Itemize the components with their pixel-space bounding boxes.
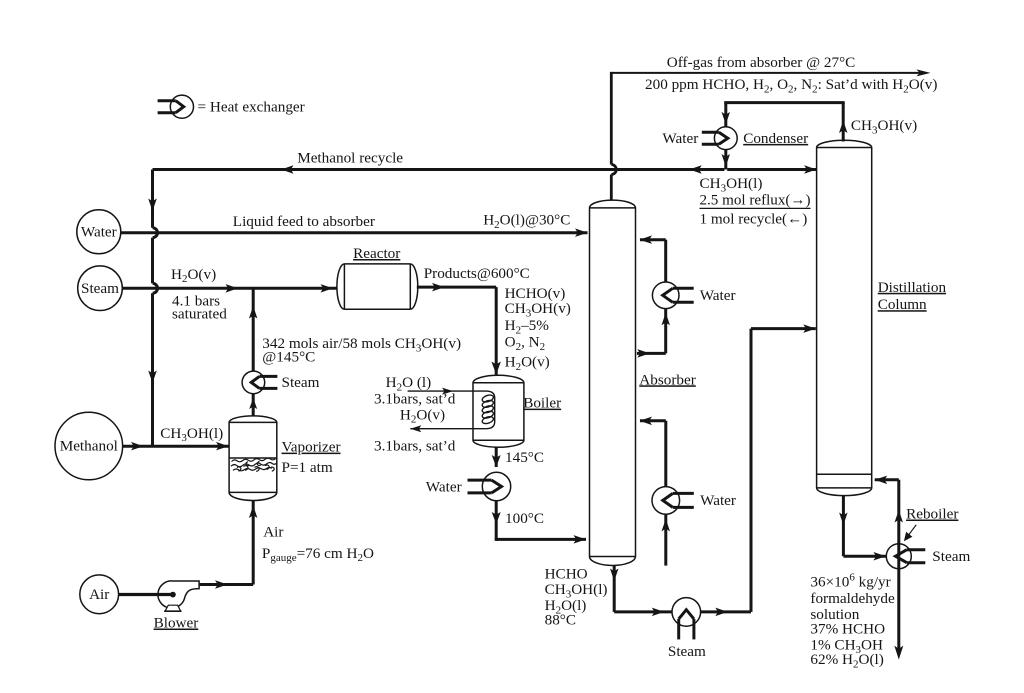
svg-text:Liquid feed to absorber: Liquid feed to absorber — [233, 213, 375, 230]
svg-text:Reactor: Reactor — [353, 245, 400, 262]
heat exchanger boiler-outlet cooler — [468, 472, 511, 500]
wire absorber intercooler loop 1 — [637, 235, 670, 357]
legend heat-exchanger symbol — [158, 95, 194, 118]
svg-text:37% HCHO: 37% HCHO — [810, 621, 885, 638]
absorber column — [590, 200, 636, 565]
reactor U-1 — [337, 264, 418, 309]
svg-text:Methanol: Methanol — [60, 438, 118, 455]
source circle Air — [80, 575, 119, 614]
vaporizer vessel — [229, 416, 277, 501]
svg-text:Air: Air — [263, 524, 283, 541]
svg-text:Steam: Steam — [668, 643, 706, 660]
wire methanol recycle / reflux header — [148, 165, 816, 446]
hop absorber-overhead over recycle line — [611, 165, 616, 175]
svg-text:Methanol recycle: Methanol recycle — [297, 150, 403, 167]
reboiler annotation arrow — [904, 525, 916, 542]
source circle Methanol — [55, 412, 123, 480]
wire column overhead to condenser — [722, 103, 848, 142]
svg-text:H2​O(v): H2​O(v) — [400, 406, 445, 425]
wire condensate to reflux header — [722, 150, 731, 170]
fraction bar reflux/recycle — [700, 207, 811, 209]
boiler coil — [408, 391, 495, 429]
svg-text:Products@600°C: Products@600°C — [424, 265, 530, 282]
svg-text:Blower: Blower — [154, 615, 199, 632]
svg-text:1 mol recycle(←): 1 mol recycle(←) — [700, 210, 808, 227]
svg-text:Water: Water — [700, 287, 736, 304]
wire reboiler vapor return — [875, 476, 903, 557]
wire column bottoms to reboiler — [839, 496, 886, 561]
heat exchanger absorber intercooler 2 — [652, 487, 694, 515]
svg-text:saturated: saturated — [172, 305, 227, 322]
svg-text:CH3​OH(l): CH3​OH(l) — [160, 425, 223, 444]
svg-text:Off-gas from absorber @ 27°C: Off-gas from absorber @ 27°C — [667, 54, 856, 71]
svg-text:CH3​OH(v): CH3​OH(v) — [851, 117, 917, 136]
wire boiler steam side — [410, 388, 453, 433]
wire formaldehyde product — [894, 556, 903, 659]
svg-text:P=1 atm: P=1 atm — [282, 459, 333, 476]
wire boiler outlet to cooler — [492, 447, 586, 543]
svg-text:O2​, N2​: O2​, N2​ — [505, 333, 546, 352]
svg-text:= Heat exchanger: = Heat exchanger — [198, 98, 305, 115]
svg-text:Column: Column — [878, 296, 927, 313]
svg-text:Condenser: Condenser — [743, 130, 808, 147]
svg-text:2.5 mol reflux(→): 2.5 mol reflux(→) — [700, 192, 811, 209]
vaporizer liquid level — [229, 458, 277, 471]
wire air from blower to vaporizer — [200, 501, 258, 589]
svg-text:formaldehyde: formaldehyde — [810, 590, 895, 607]
wire air to blower — [119, 592, 176, 598]
svg-text:H2​O(v): H2​O(v) — [171, 266, 216, 285]
wire water feed to absorber — [121, 228, 588, 237]
heat exchanger steam heater — [672, 598, 701, 640]
svg-text:145°C: 145°C — [505, 449, 544, 466]
svg-text:Boiler: Boiler — [523, 395, 561, 412]
wire heated bottoms to distillation feed — [701, 324, 816, 616]
svg-text:100°C: 100°C — [505, 510, 544, 527]
svg-text:H2​O(v): H2​O(v) — [505, 354, 550, 373]
svg-text:Water: Water — [81, 223, 117, 240]
blower B-1 — [158, 581, 199, 611]
svg-text:Air: Air — [89, 586, 109, 603]
heat exchanger on vaporizer overhead — [242, 371, 277, 394]
wire vaporizer overhead to steam line — [249, 288, 258, 416]
wire steam feed to reactor — [122, 284, 337, 293]
svg-text:Distillation: Distillation — [878, 279, 947, 296]
svg-text:Water: Water — [700, 492, 736, 509]
source circle Steam — [78, 266, 123, 311]
wire off-gas from absorber — [611, 69, 930, 203]
heat exchanger absorber intercooler 1 — [652, 282, 693, 309]
wire absorber bottoms to heater — [610, 566, 672, 617]
source circle Water — [77, 210, 121, 254]
boiler vessel — [473, 375, 524, 447]
svg-text:Vaporizer: Vaporizer — [282, 439, 341, 456]
svg-text:Water: Water — [426, 478, 462, 495]
svg-text:3.1bars, sat’d: 3.1bars, sat’d — [374, 438, 456, 455]
svg-text:Steam: Steam — [282, 374, 320, 391]
wire methanol feed to vaporizer — [123, 442, 229, 451]
svg-text:88°C: 88°C — [545, 612, 576, 629]
svg-text:62% H2​O(l): 62% H2​O(l) — [810, 651, 883, 670]
reboiler heat exchanger — [886, 544, 925, 569]
svg-text:Steam: Steam — [81, 280, 119, 297]
svg-text:Steam: Steam — [932, 548, 970, 565]
distillation column — [817, 140, 872, 495]
hop recycle-vertical over water line — [153, 228, 158, 238]
condenser heat exchanger — [702, 127, 737, 150]
wire reactor products to boiler — [417, 283, 501, 375]
svg-text:@145°C: @145°C — [262, 348, 315, 365]
hop recycle-vertical over steam line — [153, 283, 158, 293]
wire absorber intercooler loop 2 — [640, 417, 671, 566]
svg-text:3.1bars, sat’d: 3.1bars, sat’d — [374, 391, 456, 408]
svg-text:Absorber: Absorber — [639, 371, 696, 388]
svg-text:Water: Water — [662, 130, 698, 147]
svg-text:Reboiler: Reboiler — [906, 506, 958, 523]
